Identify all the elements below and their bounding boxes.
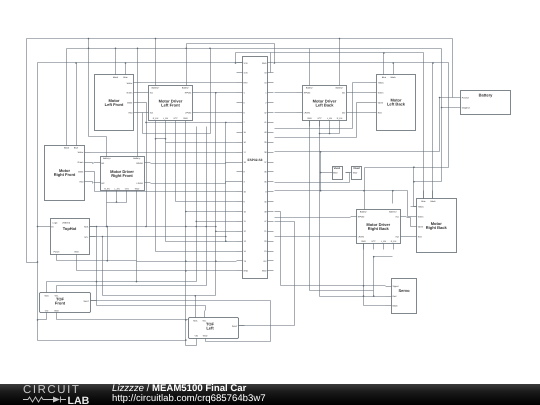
svg-text:R_EN: R_EN: [337, 117, 343, 120]
svg-text:LPWM: LPWM: [358, 235, 365, 238]
svg-text:Vive1: Vive1: [334, 167, 341, 170]
svg-text:Green: Green: [418, 215, 425, 218]
svg-text:RPWM: RPWM: [136, 162, 143, 165]
svg-text:GND: GND: [353, 171, 358, 174]
svg-text:GND: GND: [361, 240, 366, 243]
svg-text:Servo: Servo: [398, 288, 410, 293]
svg-text:White: White: [418, 225, 424, 228]
svg-text:Vive2: Vive2: [353, 167, 360, 170]
svg-text:White: White: [378, 101, 384, 104]
svg-text:RST: RST: [244, 82, 249, 85]
svg-text:LAB: LAB: [68, 395, 90, 404]
svg-text:GND: GND: [333, 171, 338, 174]
svg-text:SDA: SDA: [193, 320, 198, 323]
svg-text:Battery: Battery: [479, 93, 494, 98]
svg-text:Negative: Negative: [462, 106, 471, 109]
svg-text:LPWM: LPWM: [185, 111, 192, 114]
svg-text:Left Back: Left Back: [315, 102, 334, 107]
svg-text:SHUT: SHUT: [232, 325, 238, 328]
svg-text:RPWM: RPWM: [304, 91, 311, 94]
svg-text:Left Front: Left Front: [161, 102, 180, 107]
svg-text:VCC: VCC: [317, 117, 322, 120]
svg-text:RPWM: RPWM: [185, 91, 192, 94]
svg-text:Logic: Logic: [53, 222, 58, 225]
svg-text:Right Back: Right Back: [368, 226, 390, 231]
svg-text:VIN: VIN: [194, 335, 198, 338]
svg-text:L_EN: L_EN: [114, 188, 120, 191]
svg-text:LPWM: LPWM: [137, 182, 144, 185]
svg-text:GND: GND: [54, 310, 59, 313]
svg-text:Battery-: Battery-: [133, 157, 141, 160]
svg-text:SDA: SDA: [84, 225, 89, 228]
svg-text:Green: Green: [127, 91, 134, 94]
svg-text:VIN: VIN: [45, 310, 49, 313]
svg-text:Signal: Signal: [393, 285, 399, 288]
svg-text:Green: Green: [378, 91, 385, 94]
svg-text:L_EN: L_EN: [163, 117, 169, 120]
svg-text:GND: GND: [262, 270, 267, 273]
svg-text:VCC: VCC: [125, 188, 130, 191]
svg-text:Green: Green: [78, 161, 85, 164]
svg-text:R_EN: R_EN: [153, 117, 159, 120]
svg-text:GND: GND: [262, 62, 267, 65]
svg-text:Front: Front: [55, 301, 66, 306]
svg-text:Battery-: Battery-: [360, 211, 368, 214]
svg-text:SDA: SDA: [44, 295, 49, 298]
svg-text:Right Back: Right Back: [426, 225, 448, 230]
svg-text:Yellow: Yellow: [77, 151, 83, 154]
svg-text:Yellow: Yellow: [418, 206, 424, 209]
svg-text:L_EN: L_EN: [381, 240, 387, 243]
svg-text:Power: Power: [54, 251, 60, 254]
svg-text:Yellow: Yellow: [126, 82, 132, 85]
svg-text:ESP32-S3: ESP32-S3: [248, 158, 263, 162]
svg-text:GND: GND: [307, 117, 312, 120]
svg-text:GND: GND: [203, 335, 208, 338]
svg-text:3.3V: 3.3V: [244, 62, 249, 65]
svg-text:TopHat: TopHat: [63, 226, 77, 231]
svg-text:GND: GND: [135, 188, 140, 191]
svg-text:White: White: [127, 101, 133, 104]
svg-text:SHUT: SHUT: [83, 300, 89, 303]
svg-text:Battery+: Battery+: [103, 157, 112, 160]
svg-text:GND: GND: [183, 117, 188, 120]
svg-text:Battery+: Battery+: [152, 87, 161, 90]
svg-text:Left: Left: [206, 326, 214, 331]
svg-text:GND: GND: [74, 251, 79, 254]
svg-text:LPWM: LPWM: [304, 111, 311, 114]
svg-text:VCC: VCC: [371, 240, 376, 243]
svg-text:Left Back: Left Back: [387, 102, 406, 107]
svg-text:USBGnd: USBGnd: [62, 222, 71, 225]
svg-text:Right Front: Right Front: [54, 172, 76, 177]
svg-text:Battery-: Battery-: [182, 87, 190, 90]
svg-text:Positive: Positive: [462, 96, 470, 99]
svg-text:Battery+: Battery+: [336, 87, 345, 90]
svg-text:Right Front: Right Front: [111, 173, 133, 178]
svg-text:Yellow: Yellow: [378, 81, 384, 84]
svg-text:L_EN: L_EN: [327, 117, 333, 120]
svg-text:GND: GND: [244, 270, 249, 273]
svg-text:3.3V: 3.3V: [244, 72, 249, 75]
svg-text:Left Front: Left Front: [105, 102, 124, 107]
svg-text:R_EN: R_EN: [391, 240, 397, 243]
svg-text:RPWM: RPWM: [358, 215, 365, 218]
svg-text:R_EN: R_EN: [104, 188, 110, 191]
svg-text:White: White: [78, 171, 84, 174]
svg-text:Battery-: Battery-: [306, 87, 314, 90]
svg-text:Battery+: Battery+: [389, 211, 398, 214]
svg-text:VCC: VCC: [173, 117, 178, 120]
